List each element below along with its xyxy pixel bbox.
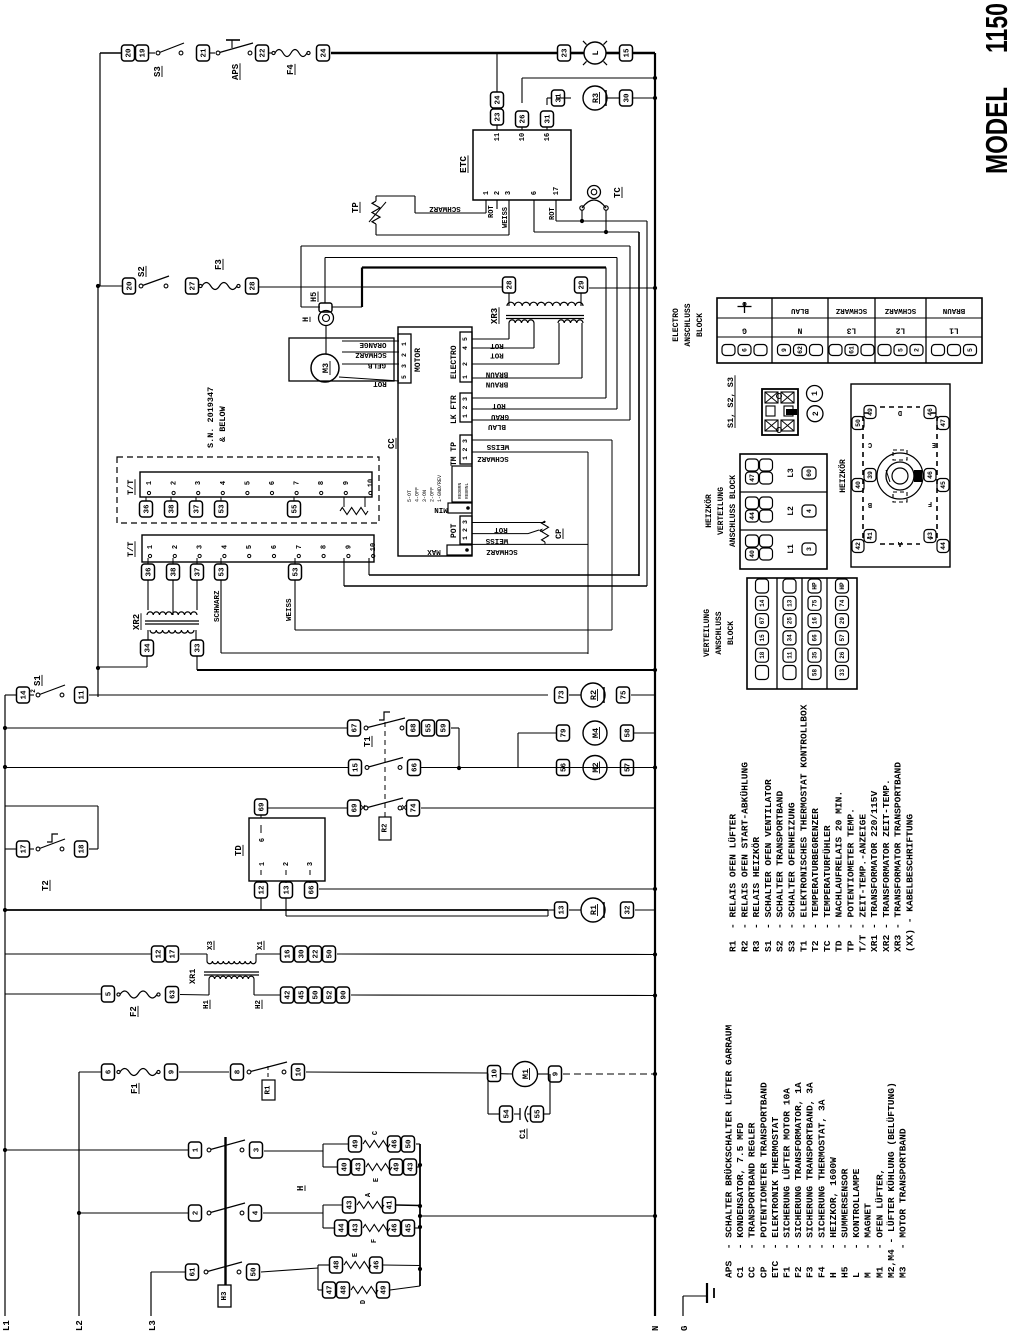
- terminal 41 hz: [864, 530, 876, 543]
- svg-text:TP - POTENTIOMETER TEMP.: TP - POTENTIOMETER TEMP.: [846, 808, 857, 952]
- svg-text:24: 24: [495, 95, 503, 105]
- svg-text:2: 2: [30, 689, 37, 693]
- svg-text:D: D: [360, 1300, 368, 1304]
- box serial dashed: [117, 457, 379, 523]
- svg-text:3: 3: [806, 547, 813, 551]
- svg-text:67: 67: [352, 723, 360, 732]
- wire TM TP WEISS: [472, 439, 612, 441]
- terminal 50 h: [247, 1264, 260, 1280]
- svg-text:57: 57: [839, 634, 846, 642]
- svg-text:L - KONTROLLAMPE: L - KONTROLLAMPE: [851, 1168, 862, 1278]
- wire F2 row: [5, 993, 102, 995]
- connector MAX: [447, 545, 472, 555]
- svg-text:24: 24: [321, 48, 329, 58]
- terminal 12 xr1: [152, 946, 165, 962]
- terminal 21: [197, 45, 210, 61]
- svg-text:43: 43: [347, 1200, 355, 1210]
- svg-text:22: 22: [313, 949, 321, 959]
- svg-text:SCHWARZ: SCHWARZ: [486, 547, 518, 555]
- svg-text:23: 23: [495, 112, 503, 122]
- svg-text:XR2: XR2: [132, 614, 142, 630]
- svg-text:1: 1: [462, 536, 469, 540]
- svg-text:& BELOW: & BELOW: [218, 405, 228, 442]
- heater A: [343, 1197, 356, 1213]
- svg-text:2: 2: [283, 862, 291, 866]
- terminal 30 r955: [295, 946, 308, 962]
- svg-text:26: 26: [520, 114, 528, 124]
- svg-text:10: 10: [519, 133, 527, 141]
- wire row 955: [5, 953, 151, 955]
- terminal 90 r995: [337, 987, 350, 1003]
- svg-text:14: 14: [21, 690, 29, 700]
- terminal 5: [102, 986, 115, 1002]
- connector MOTOR strip: [398, 334, 411, 383]
- svg-text:ROT: ROT: [492, 401, 506, 409]
- capacitor C1 loop: [487, 1074, 489, 1115]
- svg-text:SCHWARZ: SCHWARZ: [429, 204, 461, 212]
- svg-text:H: H: [301, 317, 311, 322]
- terminal 1 h: [189, 1142, 202, 1158]
- terminals under upper strip: [145, 497, 147, 501]
- svg-text:50: 50: [855, 419, 862, 427]
- svg-text:8: 8: [318, 481, 326, 485]
- terminal 3 h: [250, 1142, 263, 1158]
- wire 955 right: [256, 953, 280, 955]
- svg-text:34: 34: [787, 634, 794, 642]
- svg-text:69: 69: [259, 802, 267, 812]
- terminal lugs L2: [746, 497, 759, 509]
- svg-text:53: 53: [293, 567, 301, 577]
- riser X639: [638, 232, 640, 576]
- svg-text:REBRNL: REBRNL: [464, 482, 470, 499]
- svg-text:F4 - SICHERUNG THERMOSTAT, 3: F4 - SICHERUNG THERMOSTAT, 3A: [816, 1099, 827, 1278]
- connector POT strip: [460, 516, 472, 544]
- wire EIC pin 10 feed: [522, 77, 655, 79]
- svg-text:45: 45: [299, 990, 307, 1000]
- fuse F2: [117, 993, 120, 996]
- svg-text:42: 42: [855, 542, 862, 550]
- svg-text:F3: F3: [214, 259, 224, 270]
- svg-text:61: 61: [190, 1267, 198, 1277]
- svg-text:3: 3: [462, 520, 469, 524]
- svg-text:5: 5: [898, 348, 905, 352]
- svg-text:(XX) - KABELBESCHRIFTUNG: (XX) - KABELBESCHRIFTUNG: [905, 814, 916, 952]
- svg-text:35: 35: [812, 651, 819, 659]
- motor box M3: [289, 338, 394, 381]
- svg-text:SCHWARZ: SCHWARZ: [835, 306, 867, 314]
- svg-text:ETC - ELEKTRONIK THERMOSTAT: ETC - ELEKTRONIK THERMOSTAT: [770, 1117, 781, 1278]
- terminal 56: [557, 760, 570, 776]
- svg-text:N: N: [651, 1326, 661, 1331]
- svg-text:POT: POT: [450, 523, 459, 538]
- svg-text:MOTOR: MOTOR: [414, 348, 423, 372]
- terminal 73: [555, 687, 568, 703]
- svg-text:1: 1: [146, 481, 154, 485]
- svg-text:C: C: [868, 440, 872, 448]
- svg-text:6: 6: [742, 348, 749, 352]
- svg-text:APS - SCHALTER BRÜCKSCHALTER: APS - SCHALTER BRÜCKSCHALTER LÜFTER GARR…: [724, 1024, 735, 1278]
- svg-text:57: 57: [625, 763, 633, 772]
- svg-text:WEISS: WEISS: [286, 598, 294, 621]
- relay R2 coil: [581, 683, 605, 707]
- svg-text:1: 1: [193, 1147, 201, 1152]
- terminal 50 r955: [323, 946, 336, 962]
- svg-text:1: 1: [147, 545, 155, 549]
- svg-text:ROT: ROT: [373, 379, 387, 387]
- svg-text:R3 - RELAIS HEIZKÖR: R3 - RELAIS HEIZKÖR: [751, 837, 762, 952]
- wire 34 to left bus: [146, 656, 148, 667]
- svg-text:T/T: T/T: [126, 542, 136, 557]
- svg-text:13: 13: [787, 599, 794, 607]
- svg-text:10: 10: [296, 1067, 304, 1077]
- wire strip to XR2: [147, 580, 149, 610]
- wire POT ROT: [472, 522, 545, 524]
- svg-text:S3: S3: [153, 66, 163, 77]
- wire heater row2: [77, 1211, 81, 1215]
- connector TM TP strip: [460, 435, 472, 464]
- svg-text:4: 4: [462, 346, 469, 350]
- svg-text:2: 2: [172, 545, 180, 549]
- terminal 15: [620, 45, 633, 61]
- svg-text:33: 33: [195, 643, 203, 653]
- wire POT WEISS wiper: [472, 533, 528, 535]
- svg-text:T2 - TEMPERATURBEGRENZER: T2 - TEMPERATURBEGRENZER: [810, 808, 821, 952]
- svg-text:45: 45: [406, 1223, 414, 1233]
- terminal 40 hz: [852, 479, 864, 492]
- svg-text:E: E: [352, 1253, 360, 1257]
- terminal lug 3: [802, 543, 816, 555]
- svg-text:3: 3: [401, 364, 408, 368]
- svg-text:H5: H5: [309, 292, 319, 302]
- wire Y575: [369, 574, 639, 576]
- svg-text:WEISS: WEISS: [485, 536, 508, 544]
- terminal 6: [102, 1064, 115, 1080]
- svg-text:43: 43: [353, 1223, 361, 1233]
- svg-text:2: 2: [401, 353, 408, 357]
- svg-text:48: 48: [334, 1260, 342, 1270]
- ground symbol electro: [744, 302, 746, 313]
- terminal 11: [75, 687, 88, 703]
- svg-text:BLAU: BLAU: [488, 422, 507, 430]
- switch R2 contact: [365, 766, 369, 770]
- svg-text:67: 67: [759, 617, 766, 625]
- svg-text:BLAU: BLAU: [791, 306, 810, 314]
- svg-text:ANSCHLUSS: ANSCHLUSS: [684, 303, 693, 346]
- wire xr3 sec to ELECTRO BRAUN: [558, 323, 560, 364]
- motor M3: [311, 354, 339, 382]
- svg-text:14: 14: [759, 599, 766, 607]
- ground symbol: [706, 1283, 708, 1303]
- svg-text:50: 50: [327, 949, 335, 959]
- svg-text:15: 15: [624, 48, 632, 58]
- svg-text:53: 53: [219, 504, 227, 514]
- terminal 79: [557, 725, 570, 741]
- svg-text:M3 - MOTOR TRANSPORTBAND: M3 - MOTOR TRANSPORTBAND: [898, 1128, 909, 1278]
- node circle 2: [807, 406, 823, 422]
- terminal 49 hz: [864, 406, 876, 419]
- svg-text:8: 8: [235, 1069, 243, 1074]
- svg-text:21: 21: [201, 48, 209, 58]
- svg-text:40: 40: [342, 1162, 350, 1172]
- svg-text:49: 49: [353, 1139, 361, 1149]
- terminal 54: [500, 1106, 513, 1122]
- svg-text:49: 49: [867, 408, 874, 416]
- terminal 20: [123, 278, 136, 294]
- svg-text:74: 74: [411, 803, 419, 813]
- wire H5 loop A: [301, 245, 630, 247]
- terminal lug 4: [802, 505, 816, 517]
- svg-text:47: 47: [327, 1285, 335, 1294]
- svg-text:28: 28: [250, 281, 258, 291]
- svg-text:17: 17: [553, 187, 561, 195]
- terminal 16 r955: [281, 946, 294, 962]
- svg-text:S1, S2, S3: S1, S2, S3: [726, 377, 736, 428]
- terminal 22 r955: [309, 946, 322, 962]
- svg-text:ORANGE: ORANGE: [359, 340, 387, 348]
- svg-text:49: 49: [381, 1285, 389, 1295]
- svg-text:TD: TD: [234, 845, 244, 856]
- svg-text:9: 9: [781, 348, 788, 352]
- svg-text:R2 - RELAIS OFEN START-ABKÜHL: R2 - RELAIS OFEN START-ABKÜHLUNG: [739, 762, 750, 952]
- svg-text:2: 2: [494, 191, 502, 195]
- svg-text:1: 1: [401, 342, 408, 346]
- svg-text:F1 - SICHERUNG LÜFTER MOTOR: F1 - SICHERUNG LÜFTER MOTOR 10A: [782, 1088, 793, 1278]
- terminal lugs electro: [878, 345, 891, 356]
- terminal 57: [621, 760, 634, 776]
- svg-text:T/T - ZEIT-TEMP.-ANZEIGE: T/T - ZEIT-TEMP.-ANZEIGE: [857, 814, 868, 952]
- terminal 30: [620, 90, 633, 106]
- switch H row3: [204, 1270, 208, 1274]
- svg-text:ELECTRO: ELECTRO: [672, 308, 681, 342]
- wire td66 right: [319, 888, 655, 890]
- terminal 32: [621, 902, 634, 918]
- svg-text:MIN: MIN: [434, 505, 448, 513]
- svg-text:44: 44: [940, 542, 947, 550]
- svg-text:T2: T2: [41, 880, 51, 891]
- svg-text:6: 6: [269, 481, 277, 485]
- svg-text:C1 - KONDENSATOR, 7.5 MFD: C1 - KONDENSATOR, 7.5 MFD: [735, 1122, 746, 1278]
- svg-text:H - HEIZKOR, 1600W: H - HEIZKOR, 1600W: [828, 1157, 839, 1278]
- svg-text:1: 1: [259, 862, 267, 866]
- terminal 45 r995: [295, 987, 308, 1003]
- wire EIC pin6 line Y232: [533, 200, 535, 232]
- wire EIC pin2 stub: [496, 200, 498, 209]
- svg-text:3: 3: [307, 862, 315, 866]
- heater D: [323, 1282, 336, 1298]
- wire TC left leg: [581, 210, 583, 221]
- svg-text:E: E: [932, 440, 936, 448]
- terminal 13 row910: [555, 902, 568, 918]
- svg-text:13: 13: [559, 905, 567, 915]
- terminal 34: [141, 640, 154, 656]
- svg-text:59: 59: [441, 723, 449, 733]
- terminal 22: [256, 45, 269, 61]
- wire TP top to EIC pin1 SCHWARZ: [375, 196, 377, 201]
- switch R2b: [364, 806, 368, 810]
- svg-text:38: 38: [169, 504, 177, 514]
- relay R3: [583, 86, 607, 110]
- svg-text:36: 36: [144, 504, 152, 514]
- svg-text:1: 1: [483, 191, 491, 195]
- wire thick Y267: [362, 266, 606, 268]
- svg-text:6: 6: [106, 1069, 114, 1074]
- terminal 10: [292, 1064, 305, 1080]
- dashed heater outline: [863, 407, 937, 544]
- transformer XR3: [508, 293, 510, 306]
- terminal 33: [191, 640, 204, 656]
- svg-text:R1: R1: [265, 1085, 273, 1095]
- wire LK FTR ROT: [472, 397, 606, 399]
- svg-text:F1: F1: [130, 1083, 140, 1094]
- svg-text:F2 - SICHERUNG TRANSFORMATOR: F2 - SICHERUNG TRANSFORMATOR, 1A: [793, 1082, 804, 1278]
- resistor strip bridge: [343, 497, 345, 507]
- svg-text:69: 69: [352, 803, 360, 813]
- svg-text:34: 34: [145, 643, 153, 653]
- wire TC right leg: [605, 210, 607, 232]
- svg-text:20: 20: [127, 281, 135, 291]
- svg-text:40: 40: [749, 550, 756, 558]
- svg-text:3: 3: [505, 191, 513, 195]
- svg-text:43: 43: [356, 1162, 364, 1172]
- svg-text:11: 11: [79, 690, 87, 700]
- svg-text:15: 15: [353, 763, 361, 773]
- svg-text:10: 10: [367, 479, 375, 487]
- terminal strip verteilung 2: [783, 579, 796, 593]
- svg-text:GELB: GELB: [368, 361, 387, 369]
- svg-text:46: 46: [392, 1139, 400, 1149]
- svg-text:ROT: ROT: [494, 525, 508, 533]
- svg-text:E: E: [373, 1178, 381, 1182]
- wire xr3 sec to ELECTRO ROT: [508, 323, 510, 339]
- svg-text:4: 4: [220, 481, 228, 485]
- svg-text:1-GND/REV: 1-GND/REV: [437, 475, 443, 502]
- wire Y654: [221, 652, 588, 654]
- svg-text:CP - POTENTIOMETER TRANSPORT: CP - POTENTIOMETER TRANSPORTBAND: [758, 1082, 769, 1278]
- wire S1 row: [5, 694, 16, 696]
- riser X647: [646, 221, 648, 586]
- terminal lugs electro: [829, 345, 842, 356]
- terminal 43 hz: [924, 530, 936, 543]
- terminal 61 h: [186, 1264, 199, 1280]
- svg-text:17: 17: [21, 844, 29, 853]
- svg-text:2: 2: [812, 411, 821, 416]
- svg-text:42: 42: [285, 990, 293, 1000]
- relay R2 box label: [379, 817, 391, 840]
- connector ELECTRO strip: [460, 332, 472, 382]
- svg-text:SCHWARZ: SCHWARZ: [477, 454, 509, 462]
- switch box H3: [218, 1285, 231, 1307]
- svg-text:9: 9: [345, 545, 353, 549]
- svg-text:46: 46: [927, 471, 934, 479]
- node circle 1: [807, 386, 823, 402]
- svg-text:L3: L3: [148, 1320, 158, 1331]
- dashed relay link R2: [384, 722, 386, 818]
- sensor TC: [588, 186, 601, 199]
- wire heater row1: [3, 1148, 7, 1152]
- terminal H5: [319, 303, 332, 312]
- terminal 9 m1: [549, 1066, 562, 1082]
- heater C: [349, 1136, 362, 1152]
- svg-text:44: 44: [749, 512, 756, 520]
- svg-text:26: 26: [839, 651, 846, 659]
- strip T/T upper: [140, 472, 372, 497]
- svg-text:LK FTR: LK FTR: [450, 395, 459, 424]
- switch APS: [210, 52, 215, 54]
- wire F1 row: [79, 1071, 101, 1073]
- svg-text:38: 38: [171, 567, 179, 577]
- svg-text:N: N: [797, 326, 802, 335]
- svg-text:11: 11: [787, 651, 794, 659]
- terminal 68: [407, 720, 420, 736]
- riser X606 ROT: [605, 268, 607, 399]
- svg-text:39: 39: [867, 471, 874, 479]
- table VERTEILUNG block: [747, 578, 857, 689]
- svg-text:MAX: MAX: [427, 547, 441, 555]
- wire row 768: [3, 765, 7, 769]
- svg-text:S1 - SCHALTER OFEN VENTILATOR: S1 - SCHALTER OFEN VENTILATOR: [763, 779, 774, 952]
- svg-text:2: 2: [462, 405, 469, 409]
- svg-text:41: 41: [387, 1200, 395, 1210]
- terminal lugs electro: [722, 345, 735, 356]
- svg-text:3: 3: [462, 397, 469, 401]
- svg-text:18: 18: [759, 651, 766, 659]
- svg-text:3: 3: [254, 1147, 262, 1152]
- svg-text:55: 55: [426, 723, 434, 733]
- svg-text:SCHWARZ: SCHWARZ: [214, 590, 222, 622]
- wire TP bottom to EIC pin3 WEISS: [375, 224, 377, 235]
- terminal 29 xr3: [575, 277, 588, 293]
- svg-text:31: 31: [545, 114, 553, 124]
- thermal switch T2: [5, 848, 16, 850]
- svg-text:L: L: [591, 50, 601, 55]
- terminal 27: [186, 278, 199, 294]
- svg-text:S2: S2: [137, 266, 147, 277]
- svg-text:3: 3: [197, 545, 205, 549]
- svg-text:15: 15: [759, 634, 766, 642]
- svg-text:29: 29: [839, 617, 846, 625]
- wire 29 to bus: [589, 287, 655, 289]
- terminal 50b r995: [309, 987, 322, 1003]
- switch T1: [364, 726, 368, 730]
- svg-text:ROT: ROT: [549, 207, 557, 220]
- svg-text:6: 6: [271, 545, 279, 549]
- svg-text:TC - TEMPERATURFÜHLER: TC - TEMPERATURFÜHLER: [822, 825, 833, 952]
- box control console: [398, 327, 472, 556]
- svg-text:HEIZKÖR: HEIZKÖR: [705, 494, 714, 528]
- wire Y630: [295, 629, 612, 631]
- transformer XR1: [180, 953, 207, 955]
- terminal 28 xr3: [503, 277, 516, 293]
- svg-text:12: 12: [156, 949, 164, 959]
- svg-text:62: 62: [797, 346, 804, 354]
- svg-text:56: 56: [561, 763, 569, 773]
- svg-text:9: 9: [169, 1069, 177, 1074]
- terminal lug 60: [802, 467, 816, 479]
- svg-text:S3 - SCHALTER OFENHEIZUNG: S3 - SCHALTER OFENHEIZUNG: [787, 802, 798, 952]
- svg-text:SCHWARZ: SCHWARZ: [884, 306, 916, 314]
- wire 33 long line Y670: [196, 656, 198, 670]
- wire left inner vertical: [99, 53, 101, 286]
- svg-text:C: C: [372, 1131, 380, 1135]
- svg-text:CC: CC: [387, 438, 397, 449]
- svg-text:46: 46: [927, 408, 934, 416]
- svg-text:F: F: [371, 1239, 379, 1243]
- terminal 66 td: [305, 882, 318, 898]
- svg-text:5: 5: [462, 337, 469, 341]
- thermistor TP: [372, 201, 380, 224]
- capacitor C1: [514, 1113, 520, 1115]
- svg-text:4: 4: [221, 545, 229, 549]
